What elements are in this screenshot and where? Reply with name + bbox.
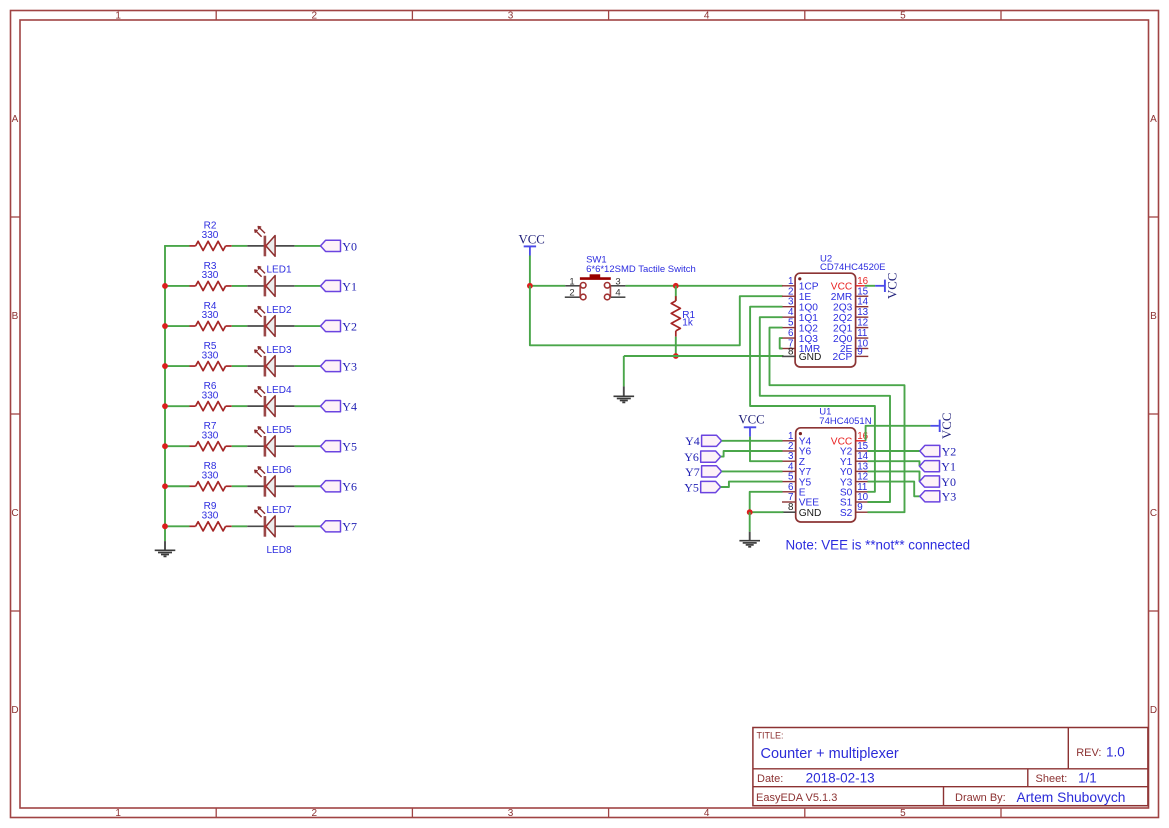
ground under U1	[739, 532, 760, 547]
wire resistor-to-LED row Y4	[232, 405, 248, 407]
wire resistor-to-LED row Y6	[232, 485, 248, 487]
wire GND rail to U2 pin 8	[624, 355, 784, 357]
net flag Y1	[321, 279, 357, 293]
svg-text:Y6: Y6	[684, 450, 699, 464]
svg-text:LED1: LED1	[267, 265, 292, 276]
svg-text:GND: GND	[799, 352, 822, 363]
svg-text:1: 1	[115, 808, 121, 819]
wire LED-to-flag row Y1	[295, 285, 321, 287]
svg-text:330: 330	[202, 390, 219, 401]
ruler row letters	[11, 114, 1157, 716]
svg-text:D: D	[1150, 705, 1157, 716]
net flag Y5	[321, 440, 357, 454]
tactile switch SW1	[565, 255, 696, 300]
wire resistor-to-LED row Y1	[232, 285, 248, 287]
junction bus row Y3	[162, 363, 168, 369]
svg-text:1CP: 1CP	[799, 282, 819, 293]
svg-text:CD74HC4520E: CD74HC4520E	[820, 262, 885, 273]
wire U1 pin12 to Y3 flag	[868, 482, 920, 497]
wire row Y0 bus-to-resistor	[164, 245, 189, 247]
power flag VCC at U2 pin16	[875, 273, 899, 299]
wire Y6 to U1 pin 2	[721, 451, 783, 457]
svg-text:3: 3	[508, 10, 514, 21]
svg-text:330: 330	[202, 310, 219, 321]
svg-text:A: A	[12, 114, 19, 125]
wire LED-to-flag row Y7	[295, 525, 321, 527]
svg-text:D: D	[11, 705, 18, 716]
svg-text:Date:: Date:	[757, 773, 783, 785]
junction bus row Y5	[162, 443, 168, 449]
net flag Y6	[321, 480, 357, 494]
junction U1 ground node	[747, 509, 753, 515]
svg-text:9: 9	[857, 346, 862, 357]
wire LED-to-flag row Y6	[295, 485, 321, 487]
IC U1 74HC4051N	[782, 407, 872, 522]
svg-text:Drawn By:: Drawn By:	[955, 792, 1006, 804]
wire U1 pin16 to VCC (right)	[866, 426, 931, 441]
wire row Y4 bus-to-resistor	[164, 405, 189, 407]
resistor R2	[190, 221, 232, 251]
wire Y5 to U1 pin 5	[721, 482, 783, 487]
title block	[753, 728, 1148, 806]
svg-text:Y1: Y1	[342, 279, 357, 293]
wire resistor-to-LED row Y2	[232, 325, 248, 327]
wire R1 bottom to GND rail	[675, 337, 677, 356]
svg-text:3: 3	[788, 297, 794, 308]
svg-text:5: 5	[788, 318, 794, 329]
svg-text:1: 1	[788, 276, 793, 287]
svg-text:4: 4	[615, 288, 620, 299]
svg-text:2CP: 2CP	[832, 352, 852, 363]
svg-text:C: C	[1150, 508, 1157, 519]
svg-text:12: 12	[857, 318, 868, 329]
svg-text:Y0: Y0	[941, 475, 956, 489]
wire ground junction to U1 pin 8 (GND)	[750, 511, 784, 513]
wire row Y5 bus-to-resistor	[164, 445, 189, 447]
svg-text:3: 3	[508, 808, 514, 819]
svg-text:VCC: VCC	[831, 282, 853, 293]
wire LED-to-flag row Y4	[295, 405, 321, 407]
svg-text:6*6*12SMD Tactile Switch: 6*6*12SMD Tactile Switch	[586, 264, 696, 275]
svg-text:VCC: VCC	[940, 413, 954, 439]
svg-text:14: 14	[857, 297, 868, 308]
ruler column numbers	[115, 10, 906, 819]
ground at LED bus bottom	[155, 541, 176, 556]
svg-text:4: 4	[704, 808, 710, 819]
svg-text:Note: VEE is **not** connected: Note: VEE is **not** connected	[786, 538, 971, 553]
LED LED3	[247, 307, 294, 356]
svg-text:Y4: Y4	[685, 434, 700, 448]
svg-text:2Q0: 2Q0	[833, 334, 853, 345]
wire U1 pin13 to Y0 flag	[868, 471, 920, 481]
svg-text:8: 8	[788, 346, 794, 357]
ground under R1 rail	[614, 386, 635, 402]
svg-text:11: 11	[857, 328, 867, 339]
svg-text:5: 5	[900, 808, 906, 819]
svg-text:VCC: VCC	[738, 412, 764, 426]
wire VCC to SW1 pin 1	[530, 285, 565, 287]
power flag VCC right of U1	[930, 413, 954, 439]
svg-text:2: 2	[312, 10, 318, 21]
wire row Y6 bus-to-resistor	[164, 485, 189, 487]
wire LED-to-flag row Y2	[295, 325, 321, 327]
wire VCC branch down-right to U2 pin 2 (1E)	[530, 286, 783, 346]
svg-text:A: A	[1150, 114, 1157, 125]
resistor R3	[190, 261, 232, 291]
net flag Y5	[684, 480, 720, 494]
wire SW1 pin 3 to R1 junction to U2 pin 1	[625, 285, 782, 287]
junction VCC node	[527, 283, 533, 289]
svg-text:Y3: Y3	[342, 359, 357, 373]
resistor R1	[671, 286, 695, 337]
net flag Y3	[321, 359, 357, 373]
svg-text:Y0: Y0	[342, 239, 357, 253]
wire resistor-to-LED row Y3	[232, 365, 248, 367]
svg-text:LED6: LED6	[267, 465, 292, 476]
wire U1 pin14 to Y1 flag	[868, 461, 920, 466]
svg-text:330: 330	[202, 511, 219, 522]
svg-text:REV:: REV:	[1076, 747, 1101, 759]
resistor R5	[190, 341, 232, 371]
wire resistor-to-LED row Y7	[232, 525, 248, 527]
resistor R8	[190, 461, 232, 491]
svg-text:Y7: Y7	[685, 465, 700, 479]
svg-text:330: 330	[202, 430, 219, 441]
wire VCC to U1 pin 3 (Z)	[750, 437, 783, 462]
svg-text:15: 15	[857, 286, 868, 297]
svg-text:LED7: LED7	[267, 505, 292, 516]
net flag Y7	[321, 520, 357, 534]
svg-text:EasyEDA V5.1.3: EasyEDA V5.1.3	[756, 792, 837, 804]
svg-text:Y2: Y2	[342, 319, 357, 333]
LED LED5	[247, 387, 294, 436]
svg-text:1k: 1k	[682, 318, 694, 329]
svg-text:Y4: Y4	[342, 400, 357, 414]
svg-text:1: 1	[115, 10, 121, 21]
net flag Y0 (right)	[920, 475, 956, 489]
svg-text:2: 2	[312, 808, 318, 819]
junction bus row Y4	[162, 403, 168, 409]
net flag Y7	[685, 465, 721, 479]
svg-text:1Q1: 1Q1	[799, 313, 819, 324]
svg-text:1Q3: 1Q3	[799, 334, 819, 345]
svg-text:5: 5	[900, 10, 906, 21]
wire row Y2 bus-to-resistor	[164, 325, 189, 327]
net flag Y3	[920, 490, 956, 504]
resistor R6	[190, 381, 232, 411]
svg-text:4: 4	[704, 10, 710, 21]
svg-text:LED3: LED3	[267, 345, 292, 356]
wire resistor-to-LED row Y5	[232, 445, 248, 447]
wire 1Q2 to S2	[770, 328, 905, 513]
net flag Y4	[685, 434, 721, 448]
net flag Y1	[920, 460, 956, 474]
wire U1 pin15 to Y2 flag	[868, 450, 920, 452]
net flag Y4	[321, 400, 357, 414]
svg-text:6: 6	[788, 328, 794, 339]
svg-text:2Q2: 2Q2	[833, 313, 853, 324]
svg-text:LED8: LED8	[267, 545, 292, 556]
svg-text:74HC4051N: 74HC4051N	[819, 416, 871, 427]
LED LED6	[247, 427, 294, 476]
svg-text:3: 3	[615, 276, 620, 287]
svg-text:Y7: Y7	[342, 520, 357, 534]
svg-text:2MR: 2MR	[831, 292, 853, 303]
svg-text:1Q2: 1Q2	[799, 323, 819, 334]
wire GND rail elbow down to ground	[623, 356, 625, 386]
svg-text:2018-02-13: 2018-02-13	[806, 771, 875, 786]
svg-text:TITLE:: TITLE:	[757, 731, 784, 741]
svg-text:Y2: Y2	[942, 444, 957, 458]
wire 1Q0 to S0	[750, 307, 875, 492]
svg-text:8: 8	[788, 502, 794, 513]
svg-text:Counter + multiplexer: Counter + multiplexer	[761, 746, 899, 762]
LED LED2	[247, 267, 294, 316]
svg-text:330: 330	[202, 270, 219, 281]
svg-text:LED2: LED2	[267, 305, 292, 316]
svg-text:B: B	[12, 311, 19, 322]
svg-text:LED5: LED5	[267, 425, 292, 436]
wire down to ground under U1	[749, 512, 751, 532]
LED LED8	[247, 507, 294, 556]
wire left vertical bus	[164, 246, 166, 541]
svg-text:4: 4	[788, 307, 794, 318]
svg-text:VCC: VCC	[885, 273, 899, 299]
wire resistor-to-LED row Y0	[232, 245, 248, 247]
svg-text:1E: 1E	[799, 292, 812, 303]
LED LED1	[247, 227, 294, 276]
wire Y4 to U1 pin 1	[722, 440, 783, 442]
svg-text:Y6: Y6	[342, 480, 357, 494]
wire row Y7 bus-to-resistor	[164, 525, 189, 527]
power flag VCC (top)	[519, 233, 545, 256]
svg-text:330: 330	[202, 350, 219, 361]
wire 1Q1 to S1	[760, 317, 890, 502]
svg-text:2: 2	[788, 286, 793, 297]
svg-text:Y1: Y1	[941, 460, 956, 474]
resistor R4	[190, 301, 232, 331]
net flag Y6	[684, 450, 720, 464]
wire row Y1 bus-to-resistor	[164, 285, 189, 287]
net flag Y2	[920, 444, 956, 458]
svg-text:1.0: 1.0	[1106, 745, 1125, 760]
svg-text:Y5: Y5	[684, 480, 699, 494]
LED LED7	[247, 467, 294, 516]
svg-text:Y5: Y5	[342, 440, 357, 454]
junction R1 bottom	[673, 353, 679, 359]
svg-text:Y3: Y3	[942, 490, 957, 504]
power flag VCC (above U1)	[738, 412, 764, 436]
svg-text:C: C	[11, 508, 18, 519]
junction bus row Y6	[162, 483, 168, 489]
svg-text:1: 1	[569, 276, 574, 287]
svg-text:2: 2	[569, 288, 574, 299]
net flag Y2	[321, 319, 357, 333]
junction bus row Y7	[162, 523, 168, 529]
resistor R9	[190, 501, 232, 531]
svg-text:9: 9	[857, 502, 862, 513]
wire row Y3 bus-to-resistor	[164, 365, 189, 367]
IC U2 CD74HC4520E	[782, 253, 885, 367]
svg-text:1/1: 1/1	[1078, 771, 1097, 786]
svg-text:1Q0: 1Q0	[799, 302, 819, 313]
wire LED-to-flag row Y3	[295, 365, 321, 367]
svg-text:2Q1: 2Q1	[833, 323, 853, 334]
svg-text:2Q3: 2Q3	[833, 302, 853, 313]
wire U2 pin6 to pin7 loop (1Q3-1MR)	[780, 338, 783, 348]
svg-text:GND: GND	[799, 508, 822, 519]
junction bus row Y1	[162, 283, 168, 289]
wire LED-to-flag row Y5	[295, 445, 321, 447]
wire LED-to-flag row Y0	[295, 245, 321, 247]
svg-text:Sheet:: Sheet:	[1036, 773, 1068, 785]
LED LED4	[247, 347, 294, 396]
svg-text:330: 330	[202, 470, 219, 481]
wire U2 pin16 to VCC	[865, 285, 875, 287]
junction bus row Y2	[162, 323, 168, 329]
svg-text:B: B	[1150, 311, 1157, 322]
svg-text:13: 13	[857, 307, 868, 318]
junction R1 top	[673, 283, 679, 289]
svg-text:330: 330	[202, 230, 219, 241]
svg-text:VCC: VCC	[519, 233, 545, 247]
resistor R7	[190, 421, 232, 451]
svg-text:S2: S2	[840, 508, 853, 519]
wire Y7 to U1 pin 4	[722, 470, 783, 472]
wire U1 pin 6 (E) to ground junction	[750, 492, 783, 512]
wire VCC stub down	[529, 256, 531, 286]
svg-text:Artem Shubovych: Artem Shubovych	[1017, 790, 1126, 805]
net flag Y0	[321, 239, 357, 253]
svg-text:LED4: LED4	[267, 385, 292, 396]
